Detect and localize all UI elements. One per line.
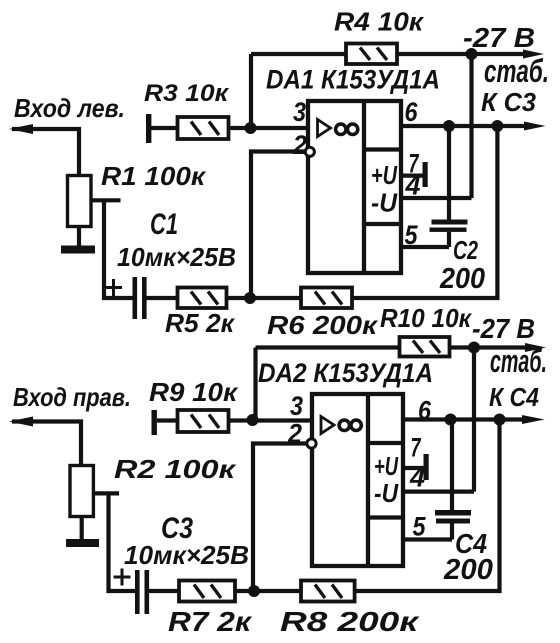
- svg-text:R6 200к: R6 200к: [267, 310, 379, 340]
- svg-text:К С3: К С3: [481, 87, 537, 117]
- svg-text:-U: -U: [371, 188, 398, 218]
- svg-text:10мк×25В: 10мк×25В: [124, 540, 249, 570]
- svg-text:Вход прав.: Вход прав.: [13, 382, 131, 412]
- svg-text:2: 2: [292, 130, 307, 160]
- svg-text:200: 200: [443, 554, 493, 586]
- svg-text:200: 200: [439, 263, 485, 295]
- svg-text:+U: +U: [374, 451, 399, 481]
- svg-text:-U: -U: [374, 478, 399, 508]
- svg-text:4: 4: [409, 463, 425, 493]
- svg-text:3: 3: [290, 391, 303, 421]
- svg-text:R3 10к: R3 10к: [144, 80, 230, 107]
- svg-text:R1 100к: R1 100к: [101, 161, 207, 191]
- svg-text:5: 5: [413, 512, 427, 542]
- svg-text:3: 3: [293, 97, 306, 127]
- svg-text:стаб.: стаб.: [484, 53, 549, 89]
- svg-text:Вход лев.: Вход лев.: [14, 93, 125, 123]
- svg-text:DA2 К153УД1А: DA2 К153УД1А: [258, 358, 433, 388]
- svg-text:стаб.: стаб.: [490, 343, 547, 379]
- svg-text:R7 2к: R7 2к: [168, 606, 253, 637]
- svg-text:R4 10к: R4 10к: [334, 7, 425, 37]
- svg-text:7: 7: [411, 433, 422, 463]
- svg-text:+U: +U: [371, 160, 398, 190]
- svg-text:6: 6: [418, 396, 432, 426]
- svg-text:2: 2: [287, 419, 302, 449]
- svg-text:R8 200к: R8 200к: [280, 606, 420, 637]
- svg-text:R2 100к: R2 100к: [114, 454, 237, 484]
- svg-text:R5 2к: R5 2к: [165, 308, 236, 338]
- svg-text:4: 4: [405, 171, 421, 201]
- svg-text:DA1 К153УД1А: DA1 К153УД1А: [266, 65, 440, 95]
- svg-text:6: 6: [405, 97, 419, 127]
- svg-text:-27 В: -27 В: [472, 313, 535, 344]
- svg-text:R10 10к: R10 10к: [380, 303, 473, 333]
- svg-text:С1: С1: [150, 208, 178, 241]
- svg-text:К С4: К С4: [489, 382, 539, 412]
- svg-text:-27 В: -27 В: [463, 22, 535, 53]
- svg-text:R9 10к: R9 10к: [149, 377, 239, 407]
- svg-text:5: 5: [405, 220, 419, 250]
- svg-text:С2: С2: [453, 235, 478, 265]
- svg-text:10мк×25В: 10мк×25В: [117, 242, 236, 272]
